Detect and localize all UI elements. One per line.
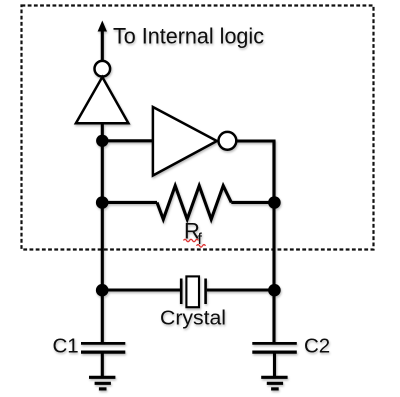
svg-text:C2: C2 <box>304 335 330 358</box>
capacitor C2 bottom plate <box>252 351 296 354</box>
wire: right vertical rail <box>272 141 275 342</box>
op-amp U1 buffer triangle <box>76 77 128 123</box>
capacitor C1 top plate <box>81 342 125 345</box>
crystal X1 right plate <box>204 279 207 305</box>
node: junction dot left of Rf <box>96 196 109 209</box>
wire: C1 to ground <box>101 353 104 376</box>
spellcheck squiggle under R <box>184 239 199 242</box>
svg-text:Crystal: Crystal <box>160 307 226 330</box>
resistor Rf zigzag <box>157 186 231 220</box>
capacitor C1 bottom plate <box>81 351 125 354</box>
ground symbol (C1) <box>89 376 115 379</box>
spellcheck squiggle under f <box>197 245 206 248</box>
op-amp U2 inverter triangle <box>153 107 217 176</box>
wire: left to resistor <box>102 201 157 204</box>
svg-text:C1: C1 <box>53 335 79 358</box>
crystal X1 left plate <box>180 279 183 305</box>
wire: resistor to right rail <box>231 201 274 204</box>
wire: inverter output to right rail <box>237 141 275 205</box>
capacitor C2 top plate <box>252 342 296 345</box>
ground symbol (C2) <box>261 376 287 379</box>
crystal X1 body <box>186 276 199 307</box>
wire: to inverter U2 input <box>102 139 153 142</box>
node: junction dot right of Rf <box>268 196 281 209</box>
node: junction dot right of crystal <box>268 284 281 297</box>
node: junction dot at inverter input tap <box>96 135 108 147</box>
op-amp U1 buffer inverter (points up) bubble <box>95 61 111 77</box>
wire: output arrow shaft <box>101 30 104 61</box>
wire: crystal to right rail <box>207 288 274 291</box>
arrowhead to internal logic <box>98 21 107 32</box>
node: junction dot left of crystal <box>96 284 109 297</box>
op-amp U2 output bubble <box>219 132 237 150</box>
wire: C2 to ground <box>273 353 276 376</box>
svg-text:To Internal logic: To Internal logic <box>113 24 264 49</box>
wire: left vertical rail <box>101 123 104 342</box>
dashed box (internal logic boundary) <box>22 6 374 250</box>
wire: left to crystal <box>102 288 180 291</box>
